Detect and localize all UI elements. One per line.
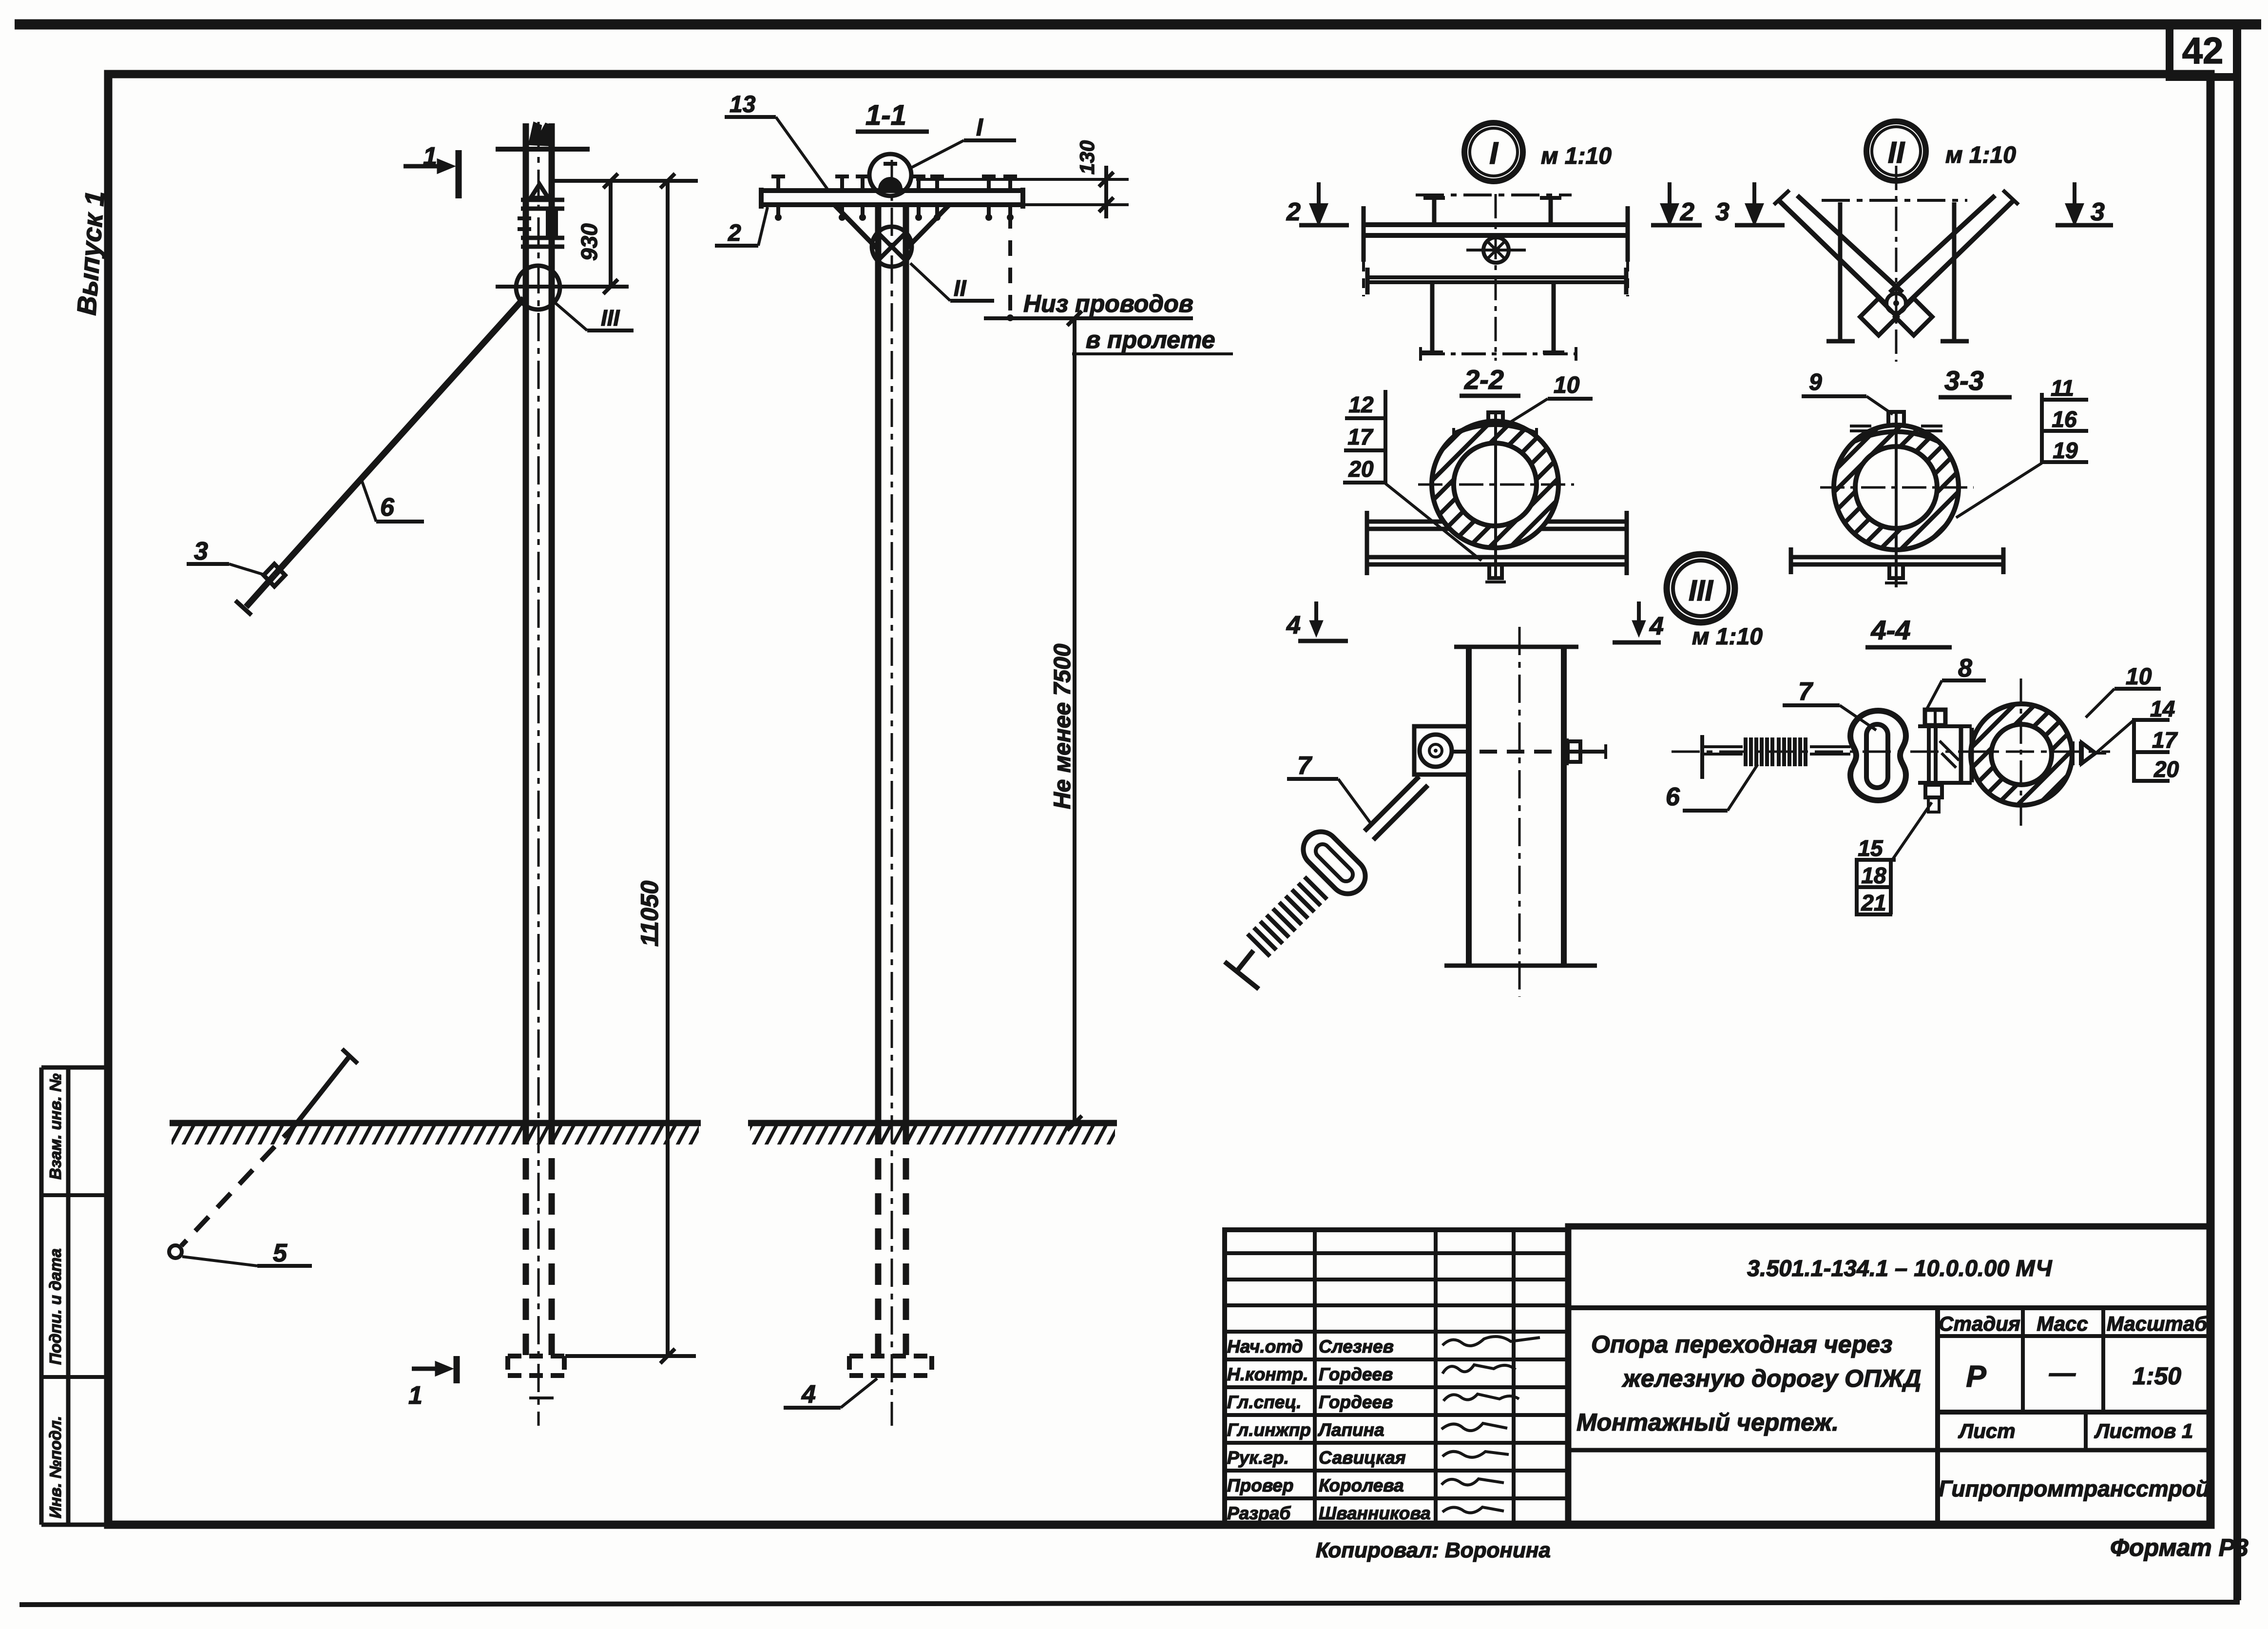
svg-text:Масштаб: Масштаб — [2107, 1312, 2208, 1335]
svg-text:4-4: 4-4 — [1871, 615, 1911, 645]
svg-text:7: 7 — [1798, 678, 1813, 706]
svg-text:4: 4 — [801, 1380, 816, 1409]
svg-text:Н.контр.: Н.контр. — [1227, 1364, 1308, 1384]
svg-text:Рук.гр.: Рук.гр. — [1227, 1448, 1289, 1468]
coil — [1248, 877, 1327, 956]
center insulator — [879, 178, 902, 189]
TITLE BLOCK — [1225, 1226, 2210, 1526]
svg-text:Разраб: Разраб — [1227, 1503, 1291, 1523]
svg-text:12: 12 — [1348, 392, 1374, 417]
detail II circle with cross — [872, 227, 912, 267]
pole shaft P1 — [523, 123, 529, 1123]
insulator pins — [771, 176, 1017, 221]
svg-text:Взам. инв. №: Взам. инв. № — [46, 1073, 64, 1180]
svg-text:2: 2 — [1286, 198, 1301, 226]
sheet number 42 — [2182, 30, 2224, 72]
svg-text:Листов 1: Листов 1 — [2094, 1419, 2193, 1442]
label 7 — [1287, 777, 1338, 781]
svg-text:14: 14 — [2150, 696, 2175, 721]
svg-text:Низ проводов: Низ проводов — [1023, 290, 1193, 317]
wire end tick — [235, 601, 251, 615]
dim 930 — [609, 181, 613, 287]
svg-text:Формат Р3: Формат Р3 — [2110, 1534, 2249, 1561]
svg-text:III: III — [1689, 574, 1713, 607]
wire bottom reference line — [984, 316, 1193, 320]
svg-text:I: I — [1489, 136, 1499, 171]
svg-text:2: 2 — [1680, 198, 1694, 226]
stack 15/18/21 — [1855, 858, 1896, 862]
svg-text:м 1:10: м 1:10 — [1541, 143, 1612, 169]
FRONT 1-1 VIEW — [715, 117, 1233, 1426]
svg-text:13: 13 — [730, 92, 756, 117]
svg-text:1: 1 — [408, 1381, 423, 1410]
svg-text:Королева: Королева — [1319, 1475, 1404, 1495]
svg-text:железную дорогу ОПЖД: железную дорогу ОПЖД — [1621, 1365, 1921, 1392]
sheet number box — [2170, 25, 2237, 77]
bracket bars — [521, 198, 564, 202]
labels — [1783, 703, 1840, 707]
leaders — [556, 303, 587, 330]
svg-text:м 1:10: м 1:10 — [1692, 624, 1763, 650]
dim not less 7500 — [1073, 318, 1076, 1123]
svg-text:21: 21 — [1861, 890, 1886, 915]
svg-text:6: 6 — [380, 493, 395, 522]
title + label 10 — [1460, 394, 1520, 398]
svg-text:Стадия: Стадия — [1939, 1312, 2020, 1335]
svg-text:Подпи. и дата: Подпи. и дата — [46, 1248, 64, 1365]
axis — [1672, 751, 2110, 753]
SECTION 2-2 — [1343, 390, 1628, 582]
svg-text:Нач.отд: Нач.отд — [1227, 1337, 1303, 1357]
LEFT ELEVATION VIEW — [169, 122, 701, 1426]
ground line right — [748, 1120, 1117, 1126]
dim 11050 — [666, 181, 670, 1356]
svg-text:III: III — [601, 305, 620, 330]
pole top cap scribble — [529, 123, 554, 145]
section mark 1 bottom — [412, 1367, 442, 1371]
section marks around detail I — [1299, 182, 2113, 225]
top bracket triangle — [531, 184, 548, 198]
pole buried dashed — [523, 1123, 529, 1356]
svg-text:9: 9 — [1809, 369, 1822, 395]
guy attachment circle (detail III) — [516, 266, 560, 310]
svg-text:Копировал: Воронина: Копировал: Воронина — [1316, 1538, 1551, 1562]
detail I circle — [869, 154, 911, 196]
svg-text:3: 3 — [2091, 198, 2105, 226]
svg-text:Гл.инжпр: Гл.инжпр — [1227, 1420, 1311, 1440]
svg-text:1: 1 — [423, 142, 437, 171]
svg-text:Инв. №подл.: Инв. №подл. — [46, 1416, 64, 1518]
svg-text:Монтажный чертеж.: Монтажный чертеж. — [1576, 1409, 1839, 1436]
pole shaft P2 — [875, 205, 882, 1123]
svg-text:Р: Р — [1966, 1360, 1986, 1394]
svg-text:3: 3 — [1715, 198, 1730, 226]
svg-text:930: 930 — [577, 223, 602, 261]
dim 130 — [916, 178, 1129, 181]
vypusk 1 label — [71, 190, 110, 316]
POLE COLUMN large scale — [1225, 601, 1661, 997]
svg-text:м 1:10: м 1:10 — [1945, 142, 2016, 168]
svg-text:6: 6 — [1666, 783, 1680, 811]
svg-text:4: 4 — [1286, 611, 1301, 640]
coil — [1746, 737, 1806, 766]
signature squiggles — [1442, 1337, 1540, 1513]
dashed drop from right pin — [1008, 213, 1012, 316]
svg-text:Лист: Лист — [1958, 1419, 2015, 1442]
svg-text:в пролете: в пролете — [1086, 326, 1215, 353]
svg-text:3-3: 3-3 — [1944, 365, 1984, 396]
leaders — [908, 140, 964, 169]
svg-text:11: 11 — [2051, 375, 2074, 401]
eye — [1850, 711, 1906, 800]
svg-text:2-2: 2-2 — [1464, 364, 1504, 395]
svg-text:1:50: 1:50 — [2133, 1362, 2181, 1390]
margin strip texts — [46, 1073, 64, 1518]
svg-text:8: 8 — [1958, 654, 1972, 682]
svg-text:42: 42 — [2182, 30, 2224, 72]
page top edge line — [15, 19, 2261, 30]
labels 12/17/20 — [1345, 416, 1384, 420]
svg-text:3: 3 — [194, 537, 208, 565]
svg-text:—: — — [2049, 1358, 2076, 1388]
svg-text:7: 7 — [1297, 752, 1312, 780]
svg-text:17: 17 — [2152, 727, 2178, 753]
ring — [1971, 704, 2072, 805]
footing plate P1 — [508, 1356, 564, 1376]
svg-text:Гордеев: Гордеев — [1319, 1364, 1393, 1384]
turnbuckle square — [264, 564, 285, 586]
svg-text:II: II — [954, 275, 967, 301]
svg-text:15: 15 — [1858, 835, 1884, 861]
title + label 9 — [1939, 395, 2012, 400]
column body — [1466, 647, 1472, 965]
SECTION 4-4 — [1672, 647, 2170, 914]
marks 4 — [1314, 601, 1318, 628]
ground line left — [170, 1120, 701, 1126]
svg-text:20: 20 — [1348, 456, 1374, 482]
DETAIL I — [1362, 123, 1629, 361]
crossarm end line — [496, 147, 590, 152]
svg-text:Шванникова: Шванникова — [1319, 1503, 1431, 1523]
clamp — [1414, 726, 1469, 775]
left margin strip — [39, 1067, 44, 1525]
left wire — [1700, 735, 1704, 779]
pole axis — [538, 122, 540, 1426]
DETAIL III circle — [1667, 554, 1763, 650]
svg-text:4: 4 — [1649, 612, 1664, 640]
page bottom edge line — [19, 1602, 2240, 1605]
section mark 1 top — [404, 164, 444, 169]
stack 14/17/20 — [2132, 718, 2170, 722]
footing plate P2 — [849, 1356, 932, 1376]
svg-text:5: 5 — [273, 1239, 288, 1267]
svg-text:Гипропромтрансстрой: Гипропромтрансстрой — [1939, 1476, 2210, 1501]
DETAIL II — [1774, 121, 2018, 362]
svg-text:19: 19 — [2053, 438, 2078, 463]
svg-text:1-1: 1-1 — [865, 99, 906, 131]
ground anchor rod — [297, 1056, 350, 1123]
top dim reference line — [552, 179, 698, 183]
svg-text:Лапина: Лапина — [1317, 1420, 1384, 1440]
svg-text:2: 2 — [728, 220, 741, 246]
big box — [1568, 1226, 2210, 1526]
clamp — [1925, 710, 1945, 725]
svg-text:Гордеев: Гордеев — [1319, 1392, 1393, 1412]
svg-text:Опора переходная через: Опора переходная через — [1591, 1331, 1892, 1358]
svg-text:I: I — [976, 114, 983, 141]
through bolt — [1452, 750, 1579, 754]
svg-text:10: 10 — [1554, 372, 1580, 398]
page right edge line — [2233, 24, 2241, 1600]
guy wire upper — [274, 298, 524, 575]
labels 11/16/19 — [2042, 398, 2088, 402]
plan view — [1416, 194, 1572, 196]
svg-text:16: 16 — [2052, 407, 2077, 432]
SECTION 3-3 — [1789, 393, 2088, 587]
svg-text:10: 10 — [2126, 664, 2152, 690]
svg-text:Гл.спец.: Гл.спец. — [1227, 1392, 1302, 1412]
svg-text:Слезнев: Слезнев — [1319, 1337, 1394, 1357]
svg-text:II: II — [1888, 136, 1905, 170]
turnbuckle eye — [1296, 825, 1373, 901]
bolt right — [2071, 741, 2075, 765]
svg-text:20: 20 — [2153, 756, 2179, 782]
svg-text:Не менее 7500: Не менее 7500 — [1050, 643, 1076, 809]
svg-text:17: 17 — [1347, 424, 1374, 449]
crossarm — [761, 188, 1023, 193]
svg-text:130: 130 — [1076, 140, 1098, 175]
guy rod — [1365, 776, 1419, 831]
svg-text:Масс: Масс — [2037, 1312, 2088, 1335]
braces — [834, 205, 877, 248]
svg-text:11050: 11050 — [636, 880, 663, 947]
svg-text:Провер: Провер — [1227, 1475, 1293, 1495]
svg-text:18: 18 — [1861, 863, 1886, 888]
svg-text:Савицкая: Савицкая — [1319, 1448, 1406, 1468]
svg-text:3.501.1-134.1 – 10.0.0.00 МЧ: 3.501.1-134.1 – 10.0.0.00 МЧ — [1747, 1255, 2053, 1281]
